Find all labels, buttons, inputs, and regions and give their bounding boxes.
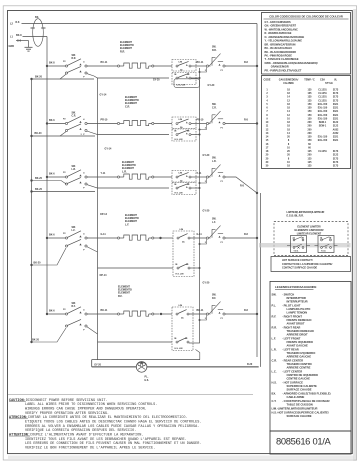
- svg-text:- LEFT FRONT: - LEFT FRONT: [282, 337, 301, 341]
- svg-text:BK-11: BK-11: [197, 309, 204, 312]
- svg-text:W. -WHITE/BLANCO/BLANC: W. -WHITE/BLANCO/BLANC: [265, 28, 299, 31]
- svg-text:ARRIERE GAUCHE: ARRIERE GAUCHE: [287, 355, 312, 359]
- svg-text:SW.: SW.: [272, 293, 277, 297]
- svg-text:BU. -BLUE/AZUL/BLEU: BU. -BLUE/AZUL/BLEU: [265, 47, 293, 50]
- svg-text:BK. -BLACK/NEGRO/NOIR: BK. -BLACK/NEGRO/NOIR: [265, 51, 297, 54]
- svg-text:- ARMORED CABLE(TUBO FLEXIBLE): - ARMORED CABLE(TUBO FLEXIBLE): [282, 392, 331, 396]
- svg-text:SW.: SW.: [212, 295, 217, 297]
- svg-text:- COOKTOP/PLANCHA DE COCINAR/: - COOKTOP/PLANCHA DE COCINAR/: [282, 399, 330, 403]
- svg-text:L.F.: L.F.: [125, 223, 129, 226]
- svg-text:CL1251: CL1251: [318, 150, 327, 153]
- svg-text:200: 200: [308, 132, 313, 135]
- svg-text:H.S. LIM: H.S. LIM: [176, 273, 184, 275]
- svg-text:OP-14: OP-14: [100, 213, 108, 216]
- svg-text:- PILOT LIGHT: - PILOT LIGHT: [282, 304, 301, 308]
- svg-text:GY-20: GY-20: [203, 209, 210, 212]
- svg-text:EXL-150: EXL-150: [318, 136, 328, 139]
- svg-text:- SWITCH: - SWITCH: [282, 293, 294, 297]
- svg-text:GY-20: GY-20: [203, 282, 210, 285]
- svg-text:GY-14: GY-14: [100, 93, 107, 96]
- svg-text:150: 150: [308, 110, 313, 113]
- svg-text:SEW-1: SEW-1: [319, 125, 327, 128]
- svg-text:L.F.: L.F.: [272, 337, 277, 341]
- svg-text:H.S. LIM: H.S. LIM: [175, 193, 183, 195]
- svg-text:3321: 3321: [333, 136, 339, 139]
- svg-text:R.R.: R.R.: [212, 50, 217, 52]
- svg-text:200: 200: [308, 121, 313, 124]
- svg-text:BR. -BROWN/CAFE/BRUN: BR. -BROWN/CAFE/BRUN: [265, 43, 296, 46]
- svg-text:P.L.: P.L.: [272, 304, 277, 308]
- svg-text:TRASERO CENTRO: TRASERO CENTRO: [287, 362, 312, 366]
- svg-text:LAMPARA PILOTO: LAMPARA PILOTO: [287, 307, 311, 311]
- svg-text:R.F.: R.F.: [118, 295, 123, 298]
- svg-text:R.R.: R.R.: [72, 58, 77, 60]
- svg-text:ARRIERE DROIT: ARRIERE DROIT: [287, 333, 309, 337]
- svg-text:L.R.: L.R.: [122, 170, 127, 173]
- svg-text:LIM: LIM: [180, 229, 184, 231]
- svg-text:R.F.: R.F.: [212, 298, 216, 300]
- svg-text:3321: 3321: [333, 103, 339, 106]
- svg-text:3173: 3173: [333, 96, 339, 99]
- svg-text:3122: 3122: [333, 121, 339, 124]
- svg-text:SW.: SW.: [72, 55, 77, 57]
- svg-text:3173: 3173: [333, 165, 339, 168]
- svg-text:GN. -GREEN/VERDE/VERT: GN. -GREEN/VERDE/VERT: [265, 25, 297, 28]
- svg-text:TRASERO IZQUIERDO: TRASERO IZQUIERDO: [287, 351, 316, 355]
- svg-text:LIM: LIM: [179, 119, 183, 121]
- svg-text:EXL-150: EXL-150: [318, 139, 328, 142]
- svg-text:150: 150: [308, 114, 313, 117]
- svg-text:ORANGE/NOIR: ORANGE/NOIR: [265, 66, 289, 69]
- svg-text:BK-6: BK-6: [49, 233, 55, 236]
- svg-text:3173: 3173: [333, 157, 339, 160]
- svg-text:SUPERFICIE CALIENTE: SUPERFICIE CALIENTE: [287, 384, 318, 388]
- svg-text:CL1251: CL1251: [318, 89, 327, 92]
- svg-text:LIMITEUR ELEMENT: LIMITEUR ELEMENT: [297, 232, 322, 235]
- svg-text:H.S. LIM: H.S. LIM: [175, 348, 183, 350]
- svg-text:3173: 3173: [333, 161, 339, 164]
- svg-text:- LEFT REAR: - LEFT REAR: [282, 348, 299, 352]
- svg-text:SEW-1: SEW-1: [319, 121, 327, 124]
- svg-text:BX.: BX.: [35, 16, 39, 19]
- svg-text:C.R.: C.R.: [212, 108, 217, 110]
- svg-text:HOT SURFACE CONTACT/: HOT SURFACE CONTACT/: [282, 259, 313, 262]
- svg-text:SURFACE CHAUDE: SURFACE CHAUDE: [287, 414, 312, 418]
- svg-text:T.O.D.: T.O.D.: [321, 250, 327, 252]
- svg-text:BK-20: BK-20: [35, 132, 43, 135]
- svg-text:- HOT SURFACE: - HOT SURFACE: [282, 381, 303, 385]
- svg-text:EXL-150: EXL-150: [318, 110, 328, 113]
- svg-text:CL1251: CL1251: [318, 96, 327, 99]
- svg-text:C.R.: C.R.: [272, 359, 278, 363]
- svg-text:STYLE: STYLE: [325, 82, 333, 85]
- svg-text:LIM: LIM: [179, 61, 183, 63]
- svg-text:BK-20: BK-20: [35, 76, 43, 79]
- svg-text:GY-20: GY-20: [94, 363, 101, 366]
- svg-text:BU-11: BU-11: [197, 61, 204, 64]
- svg-text:SW.: SW.: [212, 47, 217, 49]
- svg-text:Y-11: Y-11: [197, 172, 202, 175]
- svg-text:C.T.: C.T.: [272, 399, 277, 403]
- svg-text:BK-6: BK-6: [49, 309, 55, 312]
- svg-text:L.C.: L.C.: [272, 370, 277, 374]
- svg-text:CODE: CODE: [264, 79, 271, 82]
- svg-text:3321: 3321: [333, 117, 339, 120]
- svg-text:GRD: GRD: [9, 45, 15, 48]
- svg-text:R-8: R-8: [244, 61, 249, 64]
- svg-text:3122: 3122: [333, 154, 339, 157]
- svg-text:SW.: SW.: [72, 166, 77, 168]
- svg-text:PK. -PINK/ROSA/ROSE: PK. -PINK/ROSA/ROSE: [265, 54, 293, 57]
- svg-text:3173: 3173: [333, 150, 339, 153]
- svg-text:BU-11: BU-11: [101, 61, 108, 64]
- svg-text:T. -TAN/CAFE CLARO/BEIGE: T. -TAN/CAFE CLARO/BEIGE: [265, 58, 299, 61]
- svg-text:135: 135: [308, 96, 313, 99]
- svg-text:G-11: G-11: [101, 233, 107, 236]
- svg-text:H.S.: H.S.: [145, 380, 150, 382]
- svg-text:CONTACTO DE LA SUPERFICIE CALI: CONTACTO DE LA SUPERFICIE CALIENTE/: [282, 263, 333, 266]
- svg-text:E.G.B./BL.R.R.: E.G.B./BL.R.R.: [287, 215, 305, 218]
- svg-text:GY-20: GY-20: [203, 154, 210, 157]
- svg-text:125: 125: [308, 161, 313, 164]
- svg-text:R-8: R-8: [244, 233, 249, 236]
- svg-text:SW.: SW.: [212, 219, 217, 221]
- svg-text:L.R.: L.R.: [72, 169, 77, 171]
- svg-text:OP-14: OP-14: [100, 274, 108, 277]
- svg-text:EXL-150: EXL-150: [318, 107, 328, 110]
- svg-text:PR-10: PR-10: [101, 119, 108, 122]
- svg-text:TRASERO DERECHO: TRASERO DERECHO: [287, 329, 314, 333]
- svg-text:BK-6: BK-6: [49, 119, 55, 122]
- svg-text:BK-11: BK-11: [101, 309, 108, 312]
- svg-text:LEGEND/LEYENDA/LEGENDE: LEGEND/LEYENDA/LEGENDE: [275, 285, 317, 289]
- svg-text:LIM: LIM: [179, 172, 183, 174]
- svg-text:UL: UL: [334, 79, 338, 82]
- svg-text:CAUTION:: CAUTION:: [9, 399, 26, 403]
- svg-text:SW.: SW.: [212, 104, 217, 106]
- svg-text:- LEFT CENTER: - LEFT CENTER: [282, 370, 302, 374]
- svg-text:CENTRE GAUCHE: CENTRE GAUCHE: [287, 377, 311, 381]
- svg-text:200: 200: [308, 128, 313, 131]
- svg-text:TEMP.-°C: TEMP.-°C: [304, 79, 315, 82]
- svg-text:FRENTE IZQUIERDO: FRENTE IZQUIERDO: [287, 340, 313, 344]
- svg-text:GY-14: GY-14: [105, 147, 112, 150]
- svg-text:SW.: SW.: [212, 158, 217, 160]
- svg-text:3321: 3321: [333, 139, 339, 142]
- svg-text:AVANT GAUCHE: AVANT GAUCHE: [287, 344, 308, 348]
- svg-text:150: 150: [308, 136, 313, 139]
- svg-text:A052: A052: [333, 132, 339, 135]
- svg-text:EXL-150: EXL-150: [318, 114, 328, 117]
- svg-text:150: 150: [308, 117, 313, 120]
- svg-text:LIM.-LIMITER/LIMITADOR/LIMITEU: LIM.-LIMITER/LIMITADOR/LIMITEUR: [272, 407, 318, 411]
- svg-text:R-8: R-8: [244, 309, 249, 312]
- svg-text:3173: 3173: [333, 99, 339, 102]
- svg-text:P.L.: P.L.: [145, 376, 149, 378]
- svg-text:Y-11: Y-11: [101, 172, 106, 175]
- svg-text:GY-20: GY-20: [153, 80, 160, 82]
- svg-text:R-8: R-8: [240, 185, 245, 188]
- svg-text:CALIBRE: CALIBRE: [283, 82, 294, 85]
- svg-text:L2 L2 LIM: L2 L2 LIM: [177, 85, 186, 87]
- svg-text:BK-20: BK-20: [34, 262, 42, 265]
- svg-text:125: 125: [308, 165, 313, 168]
- svg-text:BX.: BX.: [272, 392, 277, 396]
- svg-text:TABLE DE CUISSON: TABLE DE CUISSON: [287, 403, 313, 407]
- svg-text:125: 125: [308, 150, 313, 153]
- svg-text:- RIGHT REAR: - RIGHT REAR: [282, 326, 300, 330]
- svg-text:INTERRUPTOR: INTERRUPTOR: [287, 296, 306, 300]
- svg-text:INTERRUPTEUR: INTERRUPTEUR: [287, 300, 308, 304]
- svg-text:CL1251: CL1251: [318, 99, 327, 102]
- svg-text:R.F.: R.F.: [272, 315, 277, 319]
- svg-text:- REAR CENTER: - REAR CENTER: [282, 359, 303, 363]
- svg-text:01/A: 01/A: [313, 436, 332, 447]
- svg-text:SW.: SW.: [72, 227, 77, 229]
- svg-text:PR. -PURPLE/VIOLETA/VIOLET: PR. -PURPLE/VIOLETA/VIOLET: [265, 69, 302, 72]
- svg-text:VERIFIEZ LE BON FONCTIONNEMENT: VERIFIEZ LE BON FONCTIONNEMENT DE L’APPA…: [25, 445, 155, 450]
- svg-text:EXL-150: EXL-150: [318, 103, 328, 106]
- svg-text:C.R.: C.R.: [72, 116, 77, 118]
- svg-text:150: 150: [308, 139, 313, 142]
- svg-text:3321: 3321: [333, 110, 339, 113]
- svg-text:Y. -YELLOW/AMARILLO/JAUNE: Y. -YELLOW/AMARILLO/JAUNE: [265, 40, 303, 43]
- svg-text:FRENTE DERECHO: FRENTE DERECHO: [287, 318, 312, 322]
- svg-text:GY. -GRAY/GRIS/GRIS: GY. -GRAY/GRIS/GRIS: [265, 21, 291, 24]
- svg-text:3173: 3173: [333, 89, 339, 92]
- svg-text:A052: A052: [333, 128, 339, 131]
- svg-text:BK-20: BK-20: [35, 188, 43, 191]
- svg-text:H.S.-HOT SURFACE/SUPERFICIE CA: H.S.-HOT SURFACE/SUPERFICIE CALIENTE/: [272, 411, 329, 415]
- svg-text:G-11: G-11: [197, 233, 203, 236]
- svg-text:8085616: 8085616: [276, 436, 310, 447]
- svg-text:ARRIERE CENTRE: ARRIERE CENTRE: [287, 366, 311, 370]
- svg-text:200: 200: [308, 125, 313, 128]
- svg-text:3321: 3321: [333, 107, 339, 110]
- svg-text:125: 125: [308, 157, 313, 160]
- svg-text:R.R.: R.R.: [272, 326, 278, 330]
- svg-text:H.S. LIM: H.S. LIM: [175, 139, 183, 141]
- svg-text:3122: 3122: [333, 125, 339, 128]
- svg-text:L.F.: L.F.: [72, 230, 76, 232]
- svg-text:T.O.D.: T.O.D.: [294, 250, 300, 252]
- svg-text:COLOR CODE/CODIGOS DE COLOR/CO: COLOR CODE/CODIGOS DE COLOR/CODE DE COUL…: [269, 15, 343, 19]
- svg-text:CABLE ARME: CABLE ARME: [287, 395, 305, 399]
- svg-text:IDENTIFIEZ TOUS LES FILS AVANT: IDENTIFIEZ TOUS LES FILS AVANT DE LES DE…: [25, 437, 187, 442]
- svg-text:SW.: SW.: [72, 113, 77, 115]
- svg-text:3173: 3173: [333, 92, 339, 95]
- svg-text:BK-8: BK-8: [16, 34, 22, 37]
- svg-text:O/BK. -ORANGE/BLACK(NARANJA/NE: O/BK. -ORANGE/BLACK(NARANJA/NEGRO)/: [265, 62, 319, 65]
- svg-text:AVANT DROIT: AVANT DROIT: [287, 322, 305, 326]
- svg-text:R.F.: R.F.: [72, 306, 76, 308]
- svg-text:BK-20: BK-20: [35, 177, 43, 180]
- svg-text:L.R.: L.R.: [272, 348, 277, 352]
- svg-text:R-8: R-8: [16, 21, 21, 24]
- svg-text:GY-20: GY-20: [208, 84, 215, 87]
- svg-text:R-20: R-20: [247, 363, 253, 366]
- svg-text:PR-10: PR-10: [197, 119, 204, 122]
- svg-text:- RIGHT FRONT: - RIGHT FRONT: [282, 315, 302, 319]
- svg-text:200: 200: [308, 154, 313, 157]
- svg-text:150: 150: [308, 107, 313, 110]
- svg-text:R.R.: R.R.: [120, 50, 125, 53]
- svg-text:R-8: R-8: [244, 119, 249, 122]
- svg-text:R. -RED/ROJO/ROUGE: R. -RED/ROJO/ROUGE: [265, 32, 292, 35]
- svg-text:H.S.: H.S.: [272, 381, 277, 385]
- svg-text:SW.: SW.: [72, 303, 77, 305]
- svg-text:LIM: LIM: [179, 305, 183, 307]
- svg-text:CONTACT SURFACE CHAUDE: CONTACT SURFACE CHAUDE: [282, 266, 318, 269]
- svg-text:BK-20: BK-20: [32, 338, 40, 341]
- svg-text:150: 150: [308, 103, 313, 106]
- svg-text:G-8: G-8: [17, 39, 22, 42]
- svg-text:3321: 3321: [333, 114, 339, 117]
- svg-text:EXL-150: EXL-150: [318, 117, 328, 120]
- svg-text:CENTRO DE IZQUIERDO: CENTRO DE IZQUIERDO: [287, 373, 319, 377]
- svg-text:COUPEZ L’ALIMENTATION AVANT D’: COUPEZ L’ALIMENTATION AVANT D’EFFECTUER …: [30, 432, 143, 437]
- svg-text:L.R.: L.R.: [212, 161, 217, 163]
- svg-text:CL1251: CL1251: [318, 92, 327, 95]
- svg-text:SURFACE CHAUDE: SURFACE CHAUDE: [287, 388, 312, 392]
- svg-text:135: 135: [308, 89, 313, 92]
- svg-text:LAMPE TEMOIN: LAMPE TEMOIN: [287, 311, 308, 315]
- svg-text:BK-6: BK-6: [49, 172, 55, 175]
- svg-text:125: 125: [308, 99, 313, 102]
- svg-text:O. -ORANGE/NARANJA/ORANGE: O. -ORANGE/NARANJA/ORANGE: [265, 36, 305, 39]
- svg-text:L.F.: L.F.: [212, 222, 216, 224]
- svg-text:BK-8: BK-8: [49, 61, 55, 64]
- svg-text:135: 135: [308, 92, 313, 95]
- svg-text:C.R.: C.R.: [125, 105, 130, 108]
